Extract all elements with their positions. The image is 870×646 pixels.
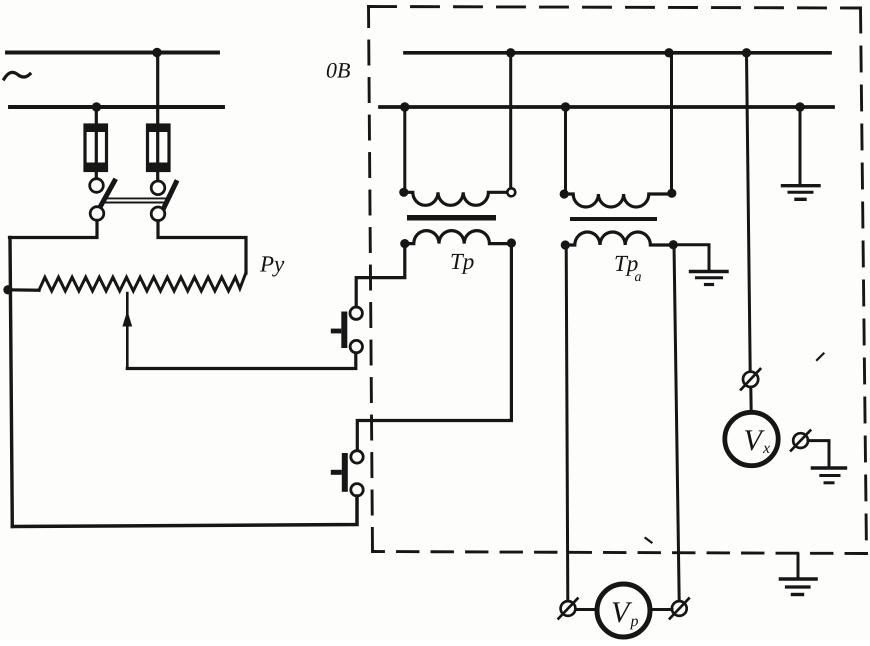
wire Tr secondary right to SB2 (357, 243, 511, 451)
wire Vp right lead (650, 608, 672, 611)
rheostat Ру zigzag (39, 274, 246, 292)
dashed enclosure ОВ (369, 7, 867, 554)
AC source tilde symbol (4, 72, 30, 79)
wire bus to Tra primary left (564, 107, 567, 194)
rheostat wiper arrow (122, 293, 132, 369)
wire Tra secondary left down to Vp (566, 245, 568, 601)
label Тр (452, 254, 474, 274)
wire Vx right to ground G2 (808, 441, 829, 467)
wire bus to fuse F2 (156, 53, 159, 182)
ground G3 top right (783, 186, 820, 200)
stray mark above Vp (646, 538, 652, 543)
wire Tra secondary right down to Vp (674, 245, 679, 601)
knife switch pole 2 (151, 181, 176, 221)
stray mark near Vx (817, 354, 824, 361)
node top bus Tra (664, 48, 673, 57)
wire bottom supply bus (10, 105, 223, 109)
node bottom bus ground (795, 102, 804, 111)
node top bus Vx (742, 48, 751, 57)
wire switch pole2 to rheostat right (158, 221, 246, 273)
wire bus to Tra primary right (670, 53, 673, 193)
ground G2 (812, 468, 845, 483)
terminal Vx top (741, 369, 760, 390)
wire enclosure bottom bus (380, 105, 833, 109)
transformer Tra core (570, 217, 657, 221)
knife switch pole 1 (90, 179, 115, 221)
terminal Vp left (559, 599, 578, 619)
node bottom supply bus (92, 102, 101, 111)
wire top supply bus (7, 51, 218, 55)
label ОВ (327, 63, 350, 78)
transformer Tra primary winding (560, 189, 677, 207)
ground G4 on enclosure bottom (781, 554, 817, 595)
push button SB1 (331, 307, 363, 353)
transformer Tra secondary winding (561, 232, 678, 250)
label Ру (260, 256, 284, 276)
transformer Tr primary winding (399, 188, 515, 206)
wire SB2 to bottom rail (12, 496, 357, 527)
node bottom bus Tr (400, 102, 409, 111)
wire Vp left lead (576, 608, 598, 611)
wire bus to Tr primary left (403, 107, 406, 192)
ground G1 (691, 272, 728, 285)
fuse F2 (147, 124, 170, 172)
wire bus to ground G3 (799, 107, 802, 184)
voltmeter Vp (597, 584, 650, 637)
transformer Tr secondary winding (400, 231, 516, 249)
voltmeter Vx (725, 412, 778, 465)
fuse F1 (85, 124, 108, 172)
node bottom bus Tra (561, 102, 570, 111)
wire switch pole1 to left rail (10, 221, 98, 238)
terminal Vx right (791, 431, 810, 451)
node rheostat left (3, 285, 12, 294)
wire left rail (10, 238, 12, 527)
wire bus to voltmeter Vx (747, 53, 751, 372)
node top bus Tr (506, 48, 515, 57)
wire wiper to push button SB1 (127, 353, 355, 369)
push button SB2 (331, 451, 363, 496)
label Тра (616, 256, 642, 281)
wire bus to fuse F1 (95, 107, 98, 179)
wire Tra secondary right to ground G1 (673, 245, 709, 270)
wire Vx top lead (749, 387, 752, 413)
node top supply bus (152, 48, 161, 57)
terminal Vp right (670, 599, 689, 619)
wire SB1 to Tr secondary left (356, 248, 405, 307)
transformer Tr core (407, 215, 496, 221)
wire rheostat left lead (8, 288, 39, 292)
wire bus to Tr primary right (509, 53, 512, 188)
switch crossbar link (104, 198, 166, 202)
wire enclosure top bus (405, 51, 830, 55)
